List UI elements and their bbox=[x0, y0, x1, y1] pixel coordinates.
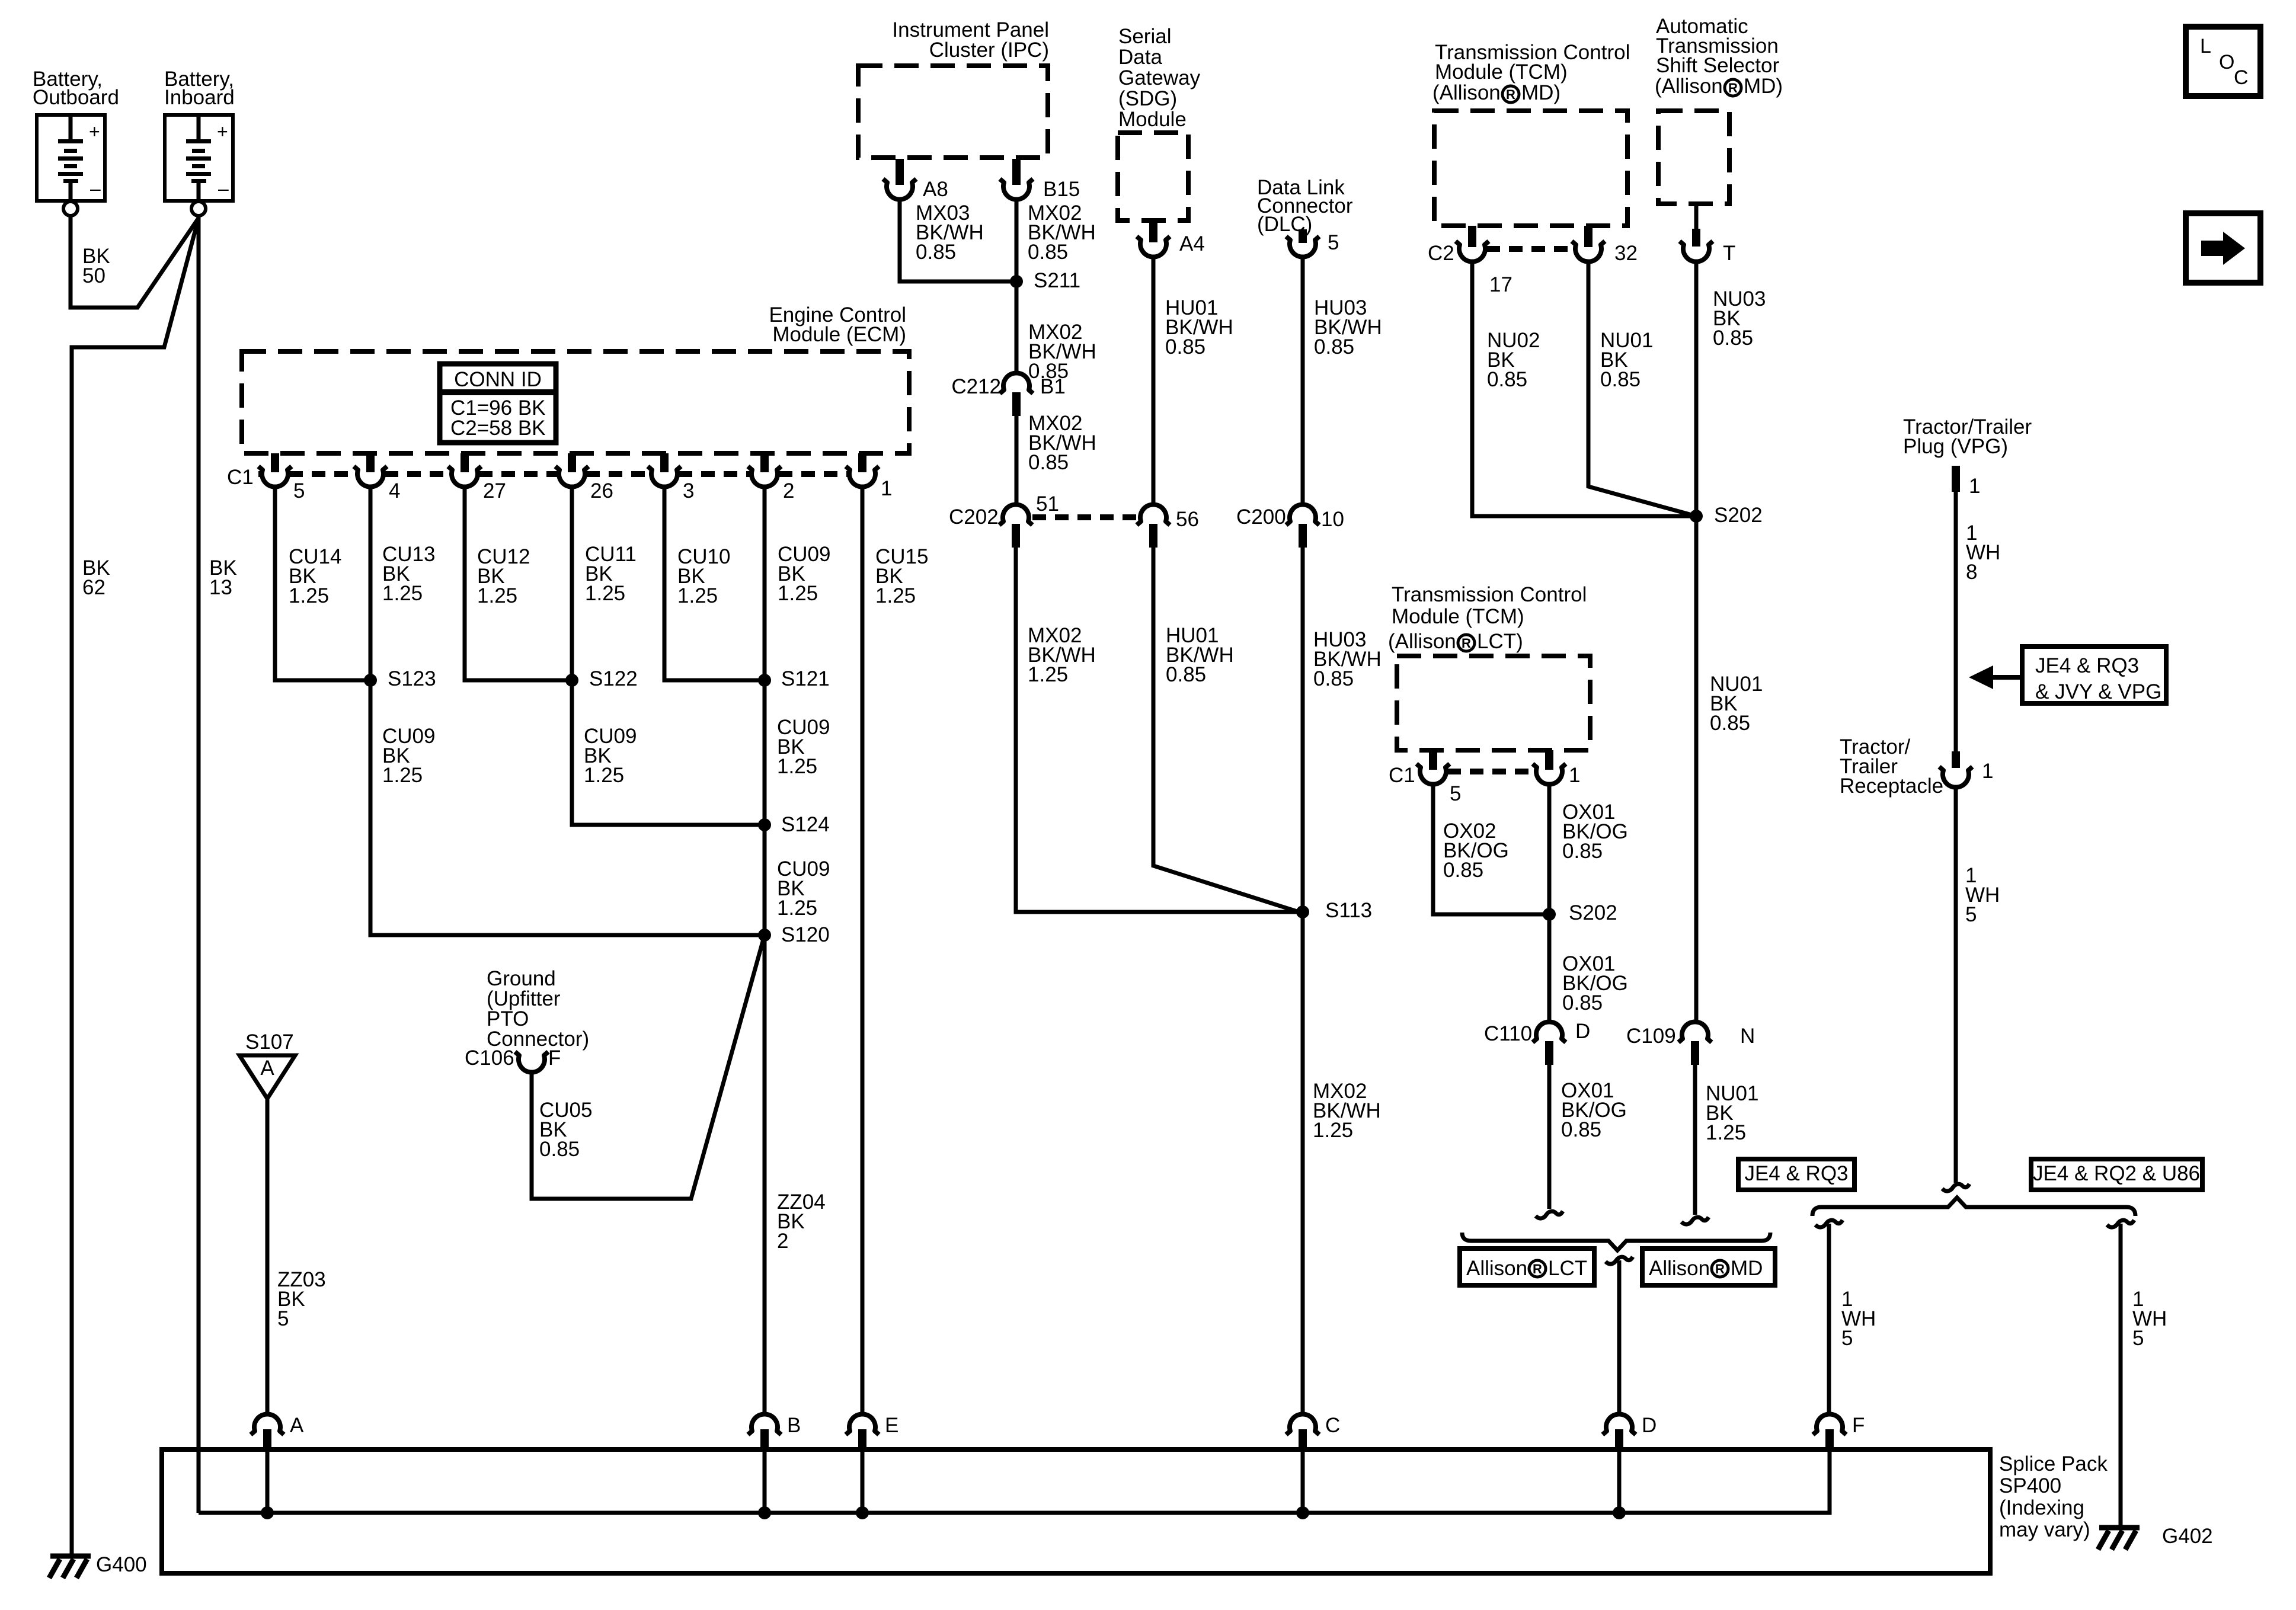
label wire CU12 BK 1.25 bbox=[477, 545, 530, 607]
svg-text:0.85: 0.85 bbox=[1487, 368, 1527, 391]
svg-text:JE4 & RQ2 & U86: JE4 & RQ2 & U86 bbox=[2033, 1162, 2200, 1185]
svg-text:–: – bbox=[218, 178, 229, 199]
label connector C2 bbox=[1428, 242, 1454, 265]
svg-text:0.85: 0.85 bbox=[1165, 335, 1205, 359]
label wire OX02 BK/OG 0.85 bbox=[1443, 820, 1509, 882]
svg-text:–: – bbox=[90, 178, 101, 199]
wire 1 WH 5 brace to ground G402 bbox=[2107, 1220, 2134, 1526]
label wire 1 WH 5 at splice F bbox=[1841, 1288, 1876, 1350]
svg-text:0.85: 0.85 bbox=[1314, 335, 1354, 359]
splice S107 ground triangle bbox=[239, 1030, 295, 1099]
svg-text:5: 5 bbox=[277, 1307, 289, 1330]
svg-text:S211: S211 bbox=[1034, 269, 1080, 292]
svg-text:1.25: 1.25 bbox=[1028, 663, 1068, 686]
pin 4 of ECM C1 bbox=[354, 453, 387, 487]
label wire CU09 BK 1.25 at pin 2 bbox=[778, 543, 830, 605]
label splice terminal E bbox=[885, 1414, 898, 1437]
pin 27 of ECM C1 bbox=[448, 453, 481, 487]
label S202 lower bbox=[1569, 901, 1617, 924]
label pin A4 bbox=[1179, 232, 1205, 255]
label S120 bbox=[781, 923, 830, 946]
label wire MX02 BK/WH 0.85 below S211 bbox=[1028, 321, 1096, 383]
svg-text:(Allison: (Allison bbox=[1655, 75, 1723, 98]
dashed link C202 to pin 56 bbox=[1032, 514, 1138, 520]
svg-text:A8: A8 bbox=[923, 178, 948, 201]
connector C1 of ECM dashed pin row bbox=[258, 471, 848, 477]
svg-text:+: + bbox=[217, 121, 228, 142]
svg-text:1.25: 1.25 bbox=[777, 897, 817, 920]
svg-text:Module: Module bbox=[1118, 108, 1187, 131]
svg-text:10: 10 bbox=[1321, 508, 1344, 531]
label C200 bbox=[1236, 505, 1286, 529]
svg-text:B15: B15 bbox=[1043, 178, 1080, 201]
svg-text:8: 8 bbox=[1966, 561, 1977, 584]
pin B15 of IPC bbox=[1000, 159, 1033, 200]
connector Tractor/Trailer Receptacle pin 1 bbox=[1939, 751, 1972, 788]
label wire NU03 BK 0.85 bbox=[1713, 287, 1766, 350]
label C212 bbox=[951, 375, 1001, 398]
label wire 1 WH 5 below receptacle bbox=[1965, 864, 2000, 926]
pin A8 of IPC bbox=[883, 159, 916, 200]
svg-text:S113: S113 bbox=[1325, 899, 1372, 922]
dashed link C2 to pin 32 bbox=[1486, 246, 1574, 252]
wire BK 62 inboard battery to ground G400 bbox=[72, 218, 199, 1556]
connector C106 pin F ground upfitter bbox=[515, 1052, 548, 1073]
junction splice E on bus bbox=[856, 1506, 869, 1519]
svg-text:C212: C212 bbox=[951, 375, 1001, 398]
brace under receptacle wire spanning splice F and G402 drops bbox=[1812, 1198, 2135, 1216]
svg-text:1: 1 bbox=[1982, 760, 1993, 783]
svg-text:MD): MD) bbox=[1744, 75, 1783, 98]
label splice terminal F bbox=[1852, 1414, 1865, 1437]
svg-text:MD: MD bbox=[1731, 1257, 1763, 1280]
svg-text:C: C bbox=[2234, 66, 2249, 89]
label pin number 1 bbox=[881, 477, 892, 500]
label wire CU09 BK 1.25 below S122 bbox=[584, 725, 637, 787]
svg-text:A4: A4 bbox=[1179, 232, 1205, 255]
wire splice C to bus bbox=[1301, 1451, 1305, 1513]
pin 1 of ECM C1 bbox=[846, 453, 879, 487]
label S202 upper bbox=[1714, 504, 1763, 527]
svg-text:A: A bbox=[290, 1414, 304, 1437]
label Data Link Connector (DLC) bbox=[1257, 176, 1353, 236]
label wire NU01 BK 1.25 bbox=[1706, 1082, 1758, 1144]
module U2 Instrument Panel Cluster (IPC) dashed box bbox=[858, 66, 1048, 158]
svg-text:1: 1 bbox=[1569, 764, 1580, 787]
svg-text:Module (TCM): Module (TCM) bbox=[1435, 60, 1568, 84]
wire MX03 BK/WH 0.85 IPC A8 to S211 bbox=[900, 199, 1013, 281]
svg-text:R: R bbox=[1462, 636, 1471, 651]
label wire CU13 BK 1.25 bbox=[382, 543, 435, 605]
label wire MX02 BK/WH 0.85 at B15 bbox=[1028, 201, 1096, 264]
pin 32 of TCM MD bbox=[1572, 226, 1605, 262]
svg-text:Module (ECM): Module (ECM) bbox=[772, 323, 906, 346]
junction S121 bbox=[758, 674, 771, 687]
wire NU01 BK 0.85 TCM 32 to S202 bbox=[1588, 260, 1696, 516]
svg-text:LCT): LCT) bbox=[1477, 630, 1523, 653]
svg-text:1: 1 bbox=[881, 477, 892, 500]
pin 5 of ECM C1 bbox=[258, 453, 292, 487]
svg-text:1.25: 1.25 bbox=[477, 584, 517, 607]
wire MX02 BK/WH 0.85 C212 to C202 bbox=[1015, 416, 1019, 505]
svg-text:C109: C109 bbox=[1626, 1025, 1676, 1048]
wire ZZ03 BK 5 S107 to splice A bbox=[266, 1099, 270, 1414]
svg-text:R: R bbox=[1506, 87, 1515, 102]
svg-text:1.25: 1.25 bbox=[382, 764, 423, 787]
pin 5 of DLC bbox=[1286, 229, 1319, 257]
pin C1-5 of TCM LCT bbox=[1416, 750, 1450, 785]
label wire CU09 BK 1.25 below S124 bbox=[777, 857, 830, 920]
svg-text:5: 5 bbox=[1841, 1327, 1853, 1350]
junction splice A on bus bbox=[261, 1506, 274, 1519]
svg-text:13: 13 bbox=[209, 576, 232, 599]
svg-text:C1: C1 bbox=[227, 466, 254, 489]
svg-text:0.85: 0.85 bbox=[1713, 327, 1753, 350]
label Tractor/ Trailer Receptacle bbox=[1840, 735, 1943, 798]
label wire HU03 BK/WH 0.85 bbox=[1314, 296, 1382, 359]
label pin 1 of plug bbox=[1969, 475, 1980, 498]
label pin 32 bbox=[1614, 242, 1638, 265]
wire BK 13 inboard battery to splice pack bus bbox=[197, 217, 201, 1513]
label wire MX02 BK/WH 0.85 below C212 bbox=[1028, 412, 1096, 474]
wire end at Allison MD bbox=[1681, 1217, 1709, 1224]
tag box Allison MD bbox=[1642, 1249, 1775, 1285]
label wire HU01 BK/WH 0.85 below 56 bbox=[1166, 624, 1234, 686]
svg-text:S120: S120 bbox=[781, 923, 830, 946]
svg-text:1.25: 1.25 bbox=[1706, 1121, 1746, 1144]
label pin 1 of receptacle bbox=[1982, 760, 1993, 783]
svg-text:1.25: 1.25 bbox=[777, 755, 817, 778]
svg-text:(Allison: (Allison bbox=[1432, 81, 1501, 104]
label Battery, Outboard bbox=[33, 68, 119, 109]
tag box JE4 & RQ3 & JVY & VPG with arrow bbox=[1969, 646, 2166, 703]
svg-text:R: R bbox=[1728, 81, 1738, 95]
svg-text:2: 2 bbox=[783, 479, 794, 502]
label pin F of C106 bbox=[548, 1046, 561, 1070]
wire from Allison brace to splice D bbox=[1606, 1257, 1633, 1414]
pin A4 of SDG module bbox=[1137, 220, 1170, 257]
label pin 17 bbox=[1489, 273, 1512, 296]
label Automatic Transmission Shift Selector Allison MD bbox=[1655, 15, 1783, 98]
label pin number 5 bbox=[293, 479, 305, 502]
connector pin 56 of C202 bbox=[1137, 504, 1170, 548]
label pin 1 of TCM LCT bbox=[1569, 764, 1580, 787]
wire 1 WH 5 receptacle down to brace bbox=[1942, 786, 1969, 1191]
svg-text:may vary): may vary) bbox=[1999, 1518, 2090, 1541]
wire NU03 BK 0.85 shift selector T through S202 to C109 bbox=[1694, 260, 1699, 1023]
junction S124 bbox=[758, 818, 771, 831]
svg-text:56: 56 bbox=[1176, 508, 1199, 531]
label wire HU03 BK/WH 0.85 below C200 bbox=[1313, 628, 1382, 690]
pin 3 of ECM C1 bbox=[648, 453, 681, 487]
svg-text:1.25: 1.25 bbox=[875, 584, 916, 607]
svg-text:26: 26 bbox=[590, 479, 613, 502]
label S113 bbox=[1325, 899, 1372, 922]
wire MX02 BK/WH 0.85 S211 to C212 bbox=[1015, 281, 1019, 374]
junction S211 bbox=[1010, 275, 1023, 288]
label wire MX02 BK/WH 1.25 below S113 bbox=[1313, 1080, 1381, 1142]
label wire OX01 BK/OG 0.85 below C110 bbox=[1561, 1079, 1627, 1141]
label wire BK 50 bbox=[82, 245, 110, 287]
svg-text:0.85: 0.85 bbox=[1562, 991, 1603, 1014]
svg-text:Outboard: Outboard bbox=[33, 86, 119, 109]
label splice terminal C bbox=[1325, 1414, 1340, 1437]
junction S113 bbox=[1296, 905, 1309, 918]
module U4 Transmission Control Module (TCM) Allison MD dashed box bbox=[1434, 111, 1627, 226]
svg-text:0.85: 0.85 bbox=[1710, 712, 1750, 735]
junction S122 bbox=[565, 674, 578, 687]
svg-text:17: 17 bbox=[1489, 273, 1512, 296]
tag box Allison LCT bbox=[1460, 1249, 1594, 1285]
svg-text:LCT: LCT bbox=[1548, 1257, 1587, 1280]
svg-text:Module (TCM): Module (TCM) bbox=[1392, 605, 1524, 628]
label pin number 26 bbox=[590, 479, 613, 502]
svg-text:G402: G402 bbox=[2162, 1525, 2213, 1548]
svg-text:0.85: 0.85 bbox=[539, 1138, 580, 1161]
svg-text:0.85: 0.85 bbox=[1166, 663, 1206, 686]
label wire 1 WH 5 at G402 bbox=[2132, 1288, 2167, 1350]
splice pack bus wire bbox=[199, 1452, 1830, 1513]
svg-text:Plug (VPG): Plug (VPG) bbox=[1903, 435, 2008, 458]
svg-text:0.85: 0.85 bbox=[1313, 667, 1354, 690]
wire 1 WH 5 brace to splice F bbox=[1815, 1220, 1843, 1414]
label pin B15 bbox=[1043, 178, 1080, 201]
connector B of splice pack SP400 bbox=[748, 1414, 781, 1449]
wire HU03 BK/WH 0.85 C200 through S113 to splice C bbox=[1301, 548, 1305, 1414]
junction S202 lower bbox=[1543, 908, 1556, 921]
svg-text:C2: C2 bbox=[1428, 242, 1454, 265]
svg-text:Allison: Allison bbox=[1466, 1257, 1527, 1280]
svg-text:MD): MD) bbox=[1521, 81, 1560, 104]
label S124 bbox=[781, 813, 830, 836]
svg-text:G400: G400 bbox=[96, 1553, 147, 1576]
svg-text:1.25: 1.25 bbox=[382, 582, 423, 605]
label wire ZZ03 BK 5 bbox=[277, 1268, 326, 1330]
symbol box LOC bbox=[2186, 27, 2260, 96]
label pin A8 bbox=[923, 178, 948, 201]
svg-text:5: 5 bbox=[1965, 903, 1977, 926]
label splice terminal D bbox=[1642, 1414, 1657, 1437]
svg-text:(Allison: (Allison bbox=[1388, 630, 1456, 653]
svg-text:D: D bbox=[1575, 1020, 1590, 1043]
wire NU02 BK 0.85 TCM C2-17 to S202 bbox=[1472, 260, 1693, 516]
label Splice Pack SP400 (Indexing may vary) bbox=[1999, 1452, 2108, 1541]
svg-text:1.25: 1.25 bbox=[677, 584, 718, 607]
svg-text:2: 2 bbox=[777, 1230, 788, 1253]
label wire CU10 BK 1.25 bbox=[677, 545, 730, 607]
wire HU01 BK/WH 0.85 pin 56 to S113 bbox=[1153, 548, 1303, 913]
label pin 56 bbox=[1176, 508, 1199, 531]
svg-text:C: C bbox=[1325, 1414, 1340, 1437]
wire CU10 BK 1.25 ECM C1-3 to S121 bbox=[664, 485, 762, 680]
label pin N bbox=[1740, 1025, 1755, 1048]
svg-text:Serial: Serial bbox=[1118, 25, 1171, 48]
label wire CU09 BK 1.25 below S121 bbox=[777, 716, 830, 778]
label splice terminal A bbox=[290, 1414, 304, 1437]
svg-text:1.25: 1.25 bbox=[585, 582, 625, 605]
svg-text:S202: S202 bbox=[1714, 504, 1763, 527]
ground G400 bbox=[49, 1553, 147, 1578]
label wire NU01 BK 0.85 below S202 bbox=[1710, 673, 1763, 735]
label pin D of C110 bbox=[1575, 1020, 1590, 1043]
wire MX02 BK/WH 0.85 IPC B15 to S211 bbox=[1015, 199, 1019, 281]
svg-text:5: 5 bbox=[1450, 782, 1461, 805]
svg-text:C200: C200 bbox=[1236, 505, 1286, 529]
label pin 10 bbox=[1321, 508, 1344, 531]
svg-text:JE4 & RQ3: JE4 & RQ3 bbox=[1744, 1162, 1848, 1185]
label Battery, Inboard bbox=[164, 68, 235, 109]
pin C2-17 of TCM MD bbox=[1456, 226, 1489, 262]
label wire 1 WH 8 bbox=[1966, 521, 2000, 584]
label wire OX01 BK/OG 0.85 below S202 bbox=[1562, 952, 1628, 1014]
junction splice B on bus bbox=[758, 1506, 771, 1519]
svg-text:S122: S122 bbox=[589, 667, 638, 690]
label pin 5 of TCM LCT bbox=[1450, 782, 1461, 805]
battery B2 Battery Inboard bbox=[165, 115, 233, 216]
svg-text:C110: C110 bbox=[1484, 1022, 1532, 1045]
svg-text:51: 51 bbox=[1036, 492, 1059, 516]
wire HU03 BK/WH 0.85 DLC to C200 bbox=[1301, 256, 1305, 505]
svg-text:CONN ID: CONN ID bbox=[454, 368, 542, 391]
table CONN ID C1=96 BK C2=58 BK bbox=[440, 364, 556, 443]
wire CU13 BK 1.25 ECM C1-4 to S123 bbox=[369, 485, 373, 680]
svg-text:S123: S123 bbox=[388, 667, 436, 690]
label Tractor/Trailer Plug (VPG) bbox=[1903, 415, 2032, 458]
wire CU09 BK 1.25 S122 to S124 bbox=[572, 680, 762, 825]
wire CU09 BK 1.25 S123 to S120 bbox=[370, 680, 762, 935]
svg-text:+: + bbox=[89, 121, 100, 142]
label Engine Control Module (ECM) bbox=[769, 303, 906, 346]
pin T of shift selector bbox=[1680, 204, 1713, 262]
junction S202 upper bbox=[1690, 510, 1703, 523]
label connector C1 of TCM LCT bbox=[1389, 764, 1415, 787]
svg-text:0.85: 0.85 bbox=[916, 241, 956, 264]
svg-text:5: 5 bbox=[293, 479, 305, 502]
module U3 Serial Data Gateway (SDG) dashed box bbox=[1118, 133, 1188, 220]
svg-text:Gateway: Gateway bbox=[1118, 66, 1201, 89]
svg-text:C1: C1 bbox=[1389, 764, 1415, 787]
connector C of splice pack SP400 bbox=[1286, 1414, 1319, 1449]
splice pack SP400 box bbox=[162, 1449, 1990, 1573]
svg-text:(SDG): (SDG) bbox=[1118, 87, 1177, 110]
label S122 bbox=[589, 667, 638, 690]
label connector C1 bbox=[227, 466, 254, 489]
label pin 51 bbox=[1036, 492, 1059, 516]
connector C202 pin 51 bbox=[999, 504, 1032, 548]
label S121 bbox=[781, 667, 830, 690]
svg-text:C2=58 BK: C2=58 BK bbox=[450, 417, 546, 440]
pin 1 of TCM LCT bbox=[1533, 750, 1566, 785]
svg-text:32: 32 bbox=[1614, 242, 1638, 265]
brace over Allison LCT and Allison MD bbox=[1462, 1233, 1770, 1250]
svg-text:JE4 & RQ3: JE4 & RQ3 bbox=[2035, 654, 2139, 677]
label wire BK 62 bbox=[82, 556, 110, 599]
svg-text:Cluster (IPC): Cluster (IPC) bbox=[929, 39, 1049, 62]
svg-text:0.85: 0.85 bbox=[1028, 451, 1069, 474]
label wire CU14 BK 1.25 bbox=[289, 545, 341, 607]
svg-text:B: B bbox=[787, 1414, 801, 1437]
svg-text:(Indexing: (Indexing bbox=[1999, 1496, 2084, 1519]
label wire OX01 BK/OG 0.85 bbox=[1562, 801, 1628, 863]
module U5 Automatic Transmission Shift Selector dashed box bbox=[1658, 111, 1729, 204]
pin 1 of tractor trailer plug bbox=[1952, 466, 1960, 492]
svg-text:S107: S107 bbox=[245, 1030, 294, 1054]
label wire NU01 BK 0.85 bbox=[1600, 329, 1653, 391]
svg-text:1.25: 1.25 bbox=[778, 582, 818, 605]
svg-text:Inboard: Inboard bbox=[164, 86, 235, 109]
label wire CU09 BK 1.25 below S123 bbox=[382, 725, 435, 787]
label splice terminal B bbox=[787, 1414, 801, 1437]
svg-text:F: F bbox=[548, 1046, 561, 1070]
junction S120 bbox=[758, 929, 771, 942]
label pin 5 of DLC bbox=[1328, 231, 1339, 254]
svg-text:SP400: SP400 bbox=[1999, 1474, 2061, 1497]
wire CU09 BK 1.25 ECM C1-2 down through S121 S124 S120 to splice B bbox=[763, 485, 767, 1414]
label wire BK 13 bbox=[209, 556, 237, 599]
svg-text:0.85: 0.85 bbox=[1028, 241, 1068, 264]
junction splice C on bus bbox=[1296, 1506, 1309, 1519]
ground G402 bbox=[2098, 1525, 2213, 1550]
svg-text:R: R bbox=[1715, 1262, 1725, 1276]
wire NU01 BK 1.25 C109 to Allison MD terminal bbox=[1693, 1065, 1697, 1215]
svg-text:1.25: 1.25 bbox=[1313, 1119, 1353, 1142]
svg-text:B1: B1 bbox=[1040, 375, 1066, 398]
wire OX01 BK/OG 0.85 TCM LCT 1 through S202 to C110 bbox=[1547, 783, 1552, 1023]
junction S123 bbox=[364, 674, 377, 687]
connector C110 pin D bbox=[1533, 1022, 1566, 1065]
label wire CU11 BK 1.25 bbox=[585, 543, 637, 605]
label pin number 27 bbox=[483, 479, 506, 502]
svg-text:62: 62 bbox=[82, 576, 105, 599]
label pin number 2 bbox=[783, 479, 794, 502]
label Instrument Panel Cluster (IPC) bbox=[892, 18, 1049, 62]
tag box JE4 & RQ2 & U86 bbox=[2031, 1159, 2202, 1190]
connector C200 pin 10 bbox=[1286, 504, 1319, 548]
svg-text:3: 3 bbox=[683, 479, 694, 502]
label wire CU15 BK 1.25 bbox=[875, 545, 928, 607]
svg-text:50: 50 bbox=[82, 264, 105, 287]
svg-text:Allison: Allison bbox=[1649, 1257, 1710, 1280]
connector A of splice pack SP400 bbox=[251, 1414, 284, 1449]
label C106 bbox=[465, 1046, 514, 1070]
svg-text:5: 5 bbox=[2132, 1327, 2144, 1350]
label Transmission Control Module (TCM) Allison MD bbox=[1432, 41, 1630, 104]
label C110 bbox=[1484, 1022, 1532, 1045]
label wire CU05 BK 0.85 bbox=[539, 1099, 592, 1161]
wire CU15 BK 1.25 ECM C1-1 to splice E bbox=[861, 485, 865, 1414]
junction splice D on bus bbox=[1613, 1506, 1626, 1519]
svg-text:A: A bbox=[260, 1057, 274, 1080]
svg-text:R: R bbox=[1533, 1262, 1542, 1276]
label wire HU01 BK/WH 0.85 bbox=[1165, 296, 1233, 359]
svg-text:C106: C106 bbox=[465, 1046, 514, 1070]
svg-text:S124: S124 bbox=[781, 813, 830, 836]
svg-text:5: 5 bbox=[1328, 231, 1339, 254]
label wire MX03 BK/WH 0.85 bbox=[916, 201, 984, 264]
label S123 bbox=[388, 667, 436, 690]
tag box JE4 & RQ3 bbox=[1738, 1159, 1854, 1190]
label pin T bbox=[1723, 242, 1735, 265]
label C202 bbox=[949, 505, 999, 529]
wire CU11 BK 1.25 ECM C1-26 to S122 bbox=[570, 485, 574, 680]
connector D of splice pack SP400 bbox=[1603, 1414, 1636, 1449]
label S211 bbox=[1034, 269, 1080, 292]
pin 2 of ECM C1 bbox=[748, 453, 781, 487]
wire OX02 BK/OG 0.85 TCM LCT C1-5 to S202 bbox=[1433, 783, 1546, 914]
dashed link C1 to pin 1 bbox=[1447, 769, 1535, 774]
svg-text:F: F bbox=[1852, 1414, 1865, 1437]
svg-text:1: 1 bbox=[1969, 475, 1980, 498]
